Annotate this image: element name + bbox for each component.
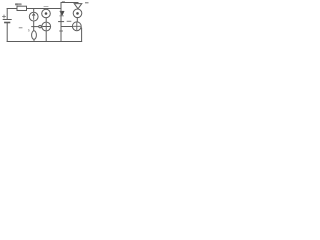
wire bell to bottom [33, 39, 35, 41]
wire top right riser [60, 3, 62, 9]
wire middle riser [60, 9, 62, 42]
wire top horizontal left [7, 8, 17, 10]
svg-text:b: b [28, 29, 30, 33]
label ticks above lamp L1 [44, 5, 48, 7]
wire top right horizontal [61, 2, 78, 4]
wire stub to ammeter A [33, 9, 35, 12]
motor M3 cross [43, 23, 50, 30]
wire ammeter down [33, 21, 35, 31]
motor M4 circle [72, 22, 81, 31]
bell Y1 oval [32, 31, 37, 40]
battery B1 long plate [3, 19, 11, 21]
resistor R1 box [17, 6, 27, 10]
wire M3 to bottom [45, 31, 47, 42]
lamp L1 circle [42, 9, 51, 18]
ammeter A circle [29, 12, 38, 21]
motor M3 circle [42, 22, 51, 31]
wire battery to bottom [6, 23, 8, 42]
terminal node circle [39, 25, 41, 27]
wire L1 to motor M3 [45, 18, 47, 22]
label tick at corner [62, 1, 64, 3]
label top right [86, 2, 89, 4]
diode D1 triangle [74, 4, 82, 9]
battery plus label [3, 15, 6, 18]
lamp L1 center dot [45, 12, 48, 15]
wire M4 right down [80, 27, 83, 41]
switch S1 blob [60, 11, 64, 15]
lamp L2 circle [73, 9, 82, 18]
label dash left [19, 27, 22, 29]
motor M4 cross [74, 23, 81, 30]
wire top horizontal middle [27, 8, 62, 10]
resistor R1 label [15, 3, 22, 5]
battery B1 short plate [5, 22, 10, 24]
lamp L2 center dot [76, 12, 79, 15]
wire bottom horizontal [7, 41, 81, 43]
label near capacitor [67, 20, 71, 22]
wire L2 to motor M4 [76, 18, 78, 22]
wire branch to M4 [61, 26, 72, 28]
capacitor C1 plate [59, 21, 64, 23]
ammeter A needle arrow [33, 14, 35, 20]
capacitor C1 tick2 [60, 30, 63, 32]
wire left vertical [6, 9, 8, 20]
wire branch to M3 [32, 26, 39, 28]
